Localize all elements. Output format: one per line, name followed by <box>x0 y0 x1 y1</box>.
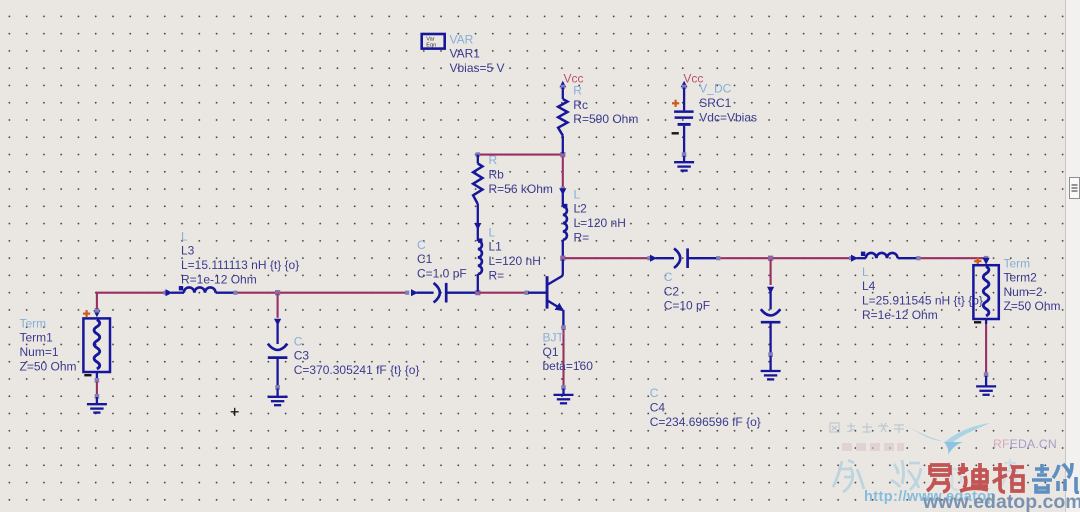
arrow into C2 pin1 <box>650 255 657 262</box>
node at L4 pin1 <box>849 256 853 260</box>
L2 lower lead to collector junction <box>562 240 564 258</box>
node at L4 pin2 <box>916 256 920 260</box>
node at C3 bottom <box>275 385 280 390</box>
watermark: RFEDA.CN <box>993 437 1057 451</box>
junction node collector <box>560 256 565 261</box>
junction node at C4 branch <box>768 256 773 261</box>
Term2 internal squiggle <box>983 266 989 316</box>
svg-text:R=56 kOhm: R=56 kOhm <box>489 182 553 196</box>
port Term2 symbol <box>973 265 998 319</box>
arrow into C4 top pin <box>767 287 774 294</box>
svg-text:L2: L2 <box>574 202 588 216</box>
watermark: faint small blocks row2 <box>842 443 904 451</box>
Term1 internal squiggle <box>94 320 100 369</box>
ground Term1 <box>87 404 107 412</box>
node at L3 pin2 <box>233 291 237 295</box>
C2 right lead <box>688 257 718 259</box>
wire collector to C2 <box>565 257 649 259</box>
wire L3 to C1 <box>238 292 408 294</box>
C1 right lead <box>446 292 477 294</box>
node at C4 bottom <box>768 352 773 357</box>
SRC1 minus mark <box>672 132 679 134</box>
svg-text:beta=160: beta=160 <box>543 359 594 373</box>
wire emitter to ground <box>562 329 564 386</box>
svg-text:Rc: Rc <box>573 98 588 112</box>
scrollbar thumb <box>1069 177 1080 199</box>
svg-text:C3: C3 <box>294 349 310 363</box>
inductor L4 symbol <box>857 257 867 259</box>
ground C4 <box>761 371 781 379</box>
Term1 plus mark <box>83 310 90 317</box>
ground Term2 <box>976 386 996 394</box>
Vcc power node (SRC1) <box>681 81 688 88</box>
wire C1 junction to BJT base node <box>480 292 527 294</box>
Term2 plus mark <box>974 258 981 265</box>
ground SRC1 <box>674 162 694 170</box>
svg-text:L=120 nH: L=120 nH <box>574 216 626 230</box>
svg-text:L3: L3 <box>181 244 195 258</box>
svg-text:VAR: VAR <box>450 32 474 46</box>
svg-text:C: C <box>417 238 426 252</box>
svg-text:L=15.111113 nH {t} {o}: L=15.111113 nH {t} {o} <box>181 258 299 272</box>
ground stem SRC1 <box>683 156 685 162</box>
svg-text:SRC1: SRC1 <box>699 96 731 110</box>
node at Term2 top <box>984 256 989 261</box>
node at L3 pin1 <box>163 291 167 295</box>
svg-text:L1: L1 <box>489 240 503 254</box>
watermark: http url <box>864 489 996 505</box>
L4 coils <box>866 253 898 258</box>
svg-text:R=: R= <box>489 268 505 282</box>
Term1 bottom pin stub <box>96 372 98 379</box>
wire C4 junction to L4 <box>773 257 851 259</box>
svg-text:Term: Term <box>1004 256 1031 270</box>
Term2 bottom stub <box>985 319 987 324</box>
svg-text:Term2: Term2 <box>1004 271 1038 285</box>
svg-text:R=: R= <box>574 230 590 244</box>
Vcc power node (Rc) <box>559 81 566 88</box>
Rb lower lead to L1 <box>477 204 479 232</box>
svg-text:Z=50 Ohm: Z=50 Ohm <box>1004 299 1061 313</box>
L3 pin square <box>179 286 183 290</box>
svg-text:BJT: BJT <box>543 331 565 345</box>
svg-text:Num=1: Num=1 <box>20 345 59 359</box>
svg-text:Vdc=Vbias: Vdc=Vbias <box>699 110 757 124</box>
ground stem Term2 <box>985 376 987 387</box>
svg-text:L: L <box>862 265 869 279</box>
ground stem Term1 <box>96 397 98 404</box>
ground stem BJT <box>562 389 564 395</box>
node square Vcc (SRC1) <box>682 85 686 89</box>
svg-text:Q1: Q1 <box>543 345 559 359</box>
L2 pin square <box>563 204 567 208</box>
svg-text:Term1: Term1 <box>20 331 54 345</box>
L1 pin square <box>478 238 482 242</box>
scrollbar grip <box>1069 177 1080 199</box>
svg-text:C=370.305241 fF {t} {o}: C=370.305241 fF {t} {o} <box>294 363 420 377</box>
inductor L2 symbol <box>562 194 564 207</box>
svg-text:R=590 Ohm: R=590 Ohm <box>573 112 638 126</box>
C2 plates <box>674 248 680 268</box>
capacitor C3 symbol <box>276 321 278 345</box>
node above Term1 ground <box>95 394 100 399</box>
capacitor C4 symbol (shunt) <box>769 289 771 310</box>
wire down to C3 <box>277 294 279 318</box>
svg-text:C: C <box>294 334 303 348</box>
arrow into C1 pin1 <box>411 289 418 296</box>
L4 pin square <box>861 252 865 256</box>
svg-text:C2: C2 <box>664 284 680 298</box>
ground BJT emitter <box>554 395 574 403</box>
wire Rc junction down to L2 <box>562 157 564 188</box>
svg-text:R=1e-12 Ohm: R=1e-12 Ohm <box>181 272 257 286</box>
node at Term1 top pin <box>95 308 100 313</box>
svg-text:C=1.0 pF: C=1.0 pF <box>417 267 467 281</box>
svg-text:V_DC: V_DC <box>699 82 731 96</box>
svg-text:C: C <box>664 270 673 284</box>
node at Rb top pin <box>476 152 481 157</box>
wire L4 to Term2 <box>921 257 987 259</box>
C3 lower lead <box>276 358 278 387</box>
ground stem C4 <box>769 356 771 371</box>
schematic origin cross <box>231 408 239 416</box>
svg-text:L: L <box>489 225 496 239</box>
wire C2 to C4 junction <box>720 257 770 259</box>
svg-text:C: C <box>650 386 659 400</box>
junction node at C3 branch <box>275 290 280 295</box>
Rc lower lead <box>562 136 564 154</box>
ground C3 <box>268 397 288 405</box>
scrollbar track <box>1066 0 1080 512</box>
watermark: faint uploader row <box>826 421 1080 453</box>
arrow into L4 pin1 <box>851 255 858 262</box>
Term1 top pin arrow <box>93 310 100 317</box>
transistor Q1 symbol <box>528 260 564 327</box>
C1 plates <box>434 283 440 303</box>
svg-text:L=120 nH: L=120 nH <box>489 254 541 268</box>
dc source SRC1 symbol <box>674 88 694 154</box>
inductor L1 symbol <box>477 232 479 242</box>
svg-text:R: R <box>573 84 582 98</box>
svg-text:L4: L4 <box>862 279 876 293</box>
L3 lead out <box>216 292 235 294</box>
svg-text:Term: Term <box>20 316 47 330</box>
svg-text:Z=50 Ohm: Z=50 Ohm <box>20 359 77 373</box>
node at BJT base pin <box>524 291 528 295</box>
wire Term2 bottom to ground <box>985 324 987 374</box>
capacitor C2 symbol <box>656 257 675 259</box>
resistor Rb symbol <box>477 155 479 164</box>
svg-text:C=10 pF: C=10 pF <box>664 299 710 313</box>
arrow into L3 pin1 <box>166 289 173 296</box>
inductor L3 symbol <box>171 292 184 294</box>
C4 lower lead <box>769 322 771 353</box>
SRC1 plus mark <box>672 100 679 107</box>
arrow into C3 top pin <box>274 319 281 326</box>
node at C2 pin2 <box>716 256 720 260</box>
svg-text:C4: C4 <box>650 401 666 415</box>
arrow into L1 top pin <box>474 223 481 230</box>
variable block VAR1 (VAR eqn) <box>422 34 445 49</box>
capacitor C1 symbol <box>417 292 434 294</box>
resistor Rc symbol <box>562 88 564 100</box>
watermark: big faint char wei <box>828 455 1080 512</box>
svg-text:L: L <box>574 187 581 201</box>
svg-text:C1: C1 <box>417 252 433 266</box>
node at SRC1 bottom <box>682 152 687 157</box>
svg-text:R=1e-12 Ohm: R=1e-12 Ohm <box>862 308 938 322</box>
arrow into Term2 top pin <box>983 258 990 265</box>
node at L2 top pin <box>561 187 565 191</box>
wire main line corner to L3 <box>96 292 97 294</box>
junction node main line / bias chain <box>475 290 480 295</box>
scrollbar divider <box>1065 0 1066 512</box>
watermark: swoosh logo <box>902 417 994 459</box>
L1 lower lead <box>477 274 479 292</box>
svg-text:Var: Var <box>426 36 434 42</box>
port Term1 symbol <box>83 318 110 372</box>
svg-text:L: L <box>181 229 188 243</box>
node at C2 pin1 <box>647 256 651 260</box>
wire Term1 bottom to ground <box>96 382 98 396</box>
ground stem C3 <box>276 389 278 397</box>
node above BJT ground <box>561 385 566 390</box>
wire Term1 top to main line <box>96 293 98 309</box>
watermark: brand characters yi di tuo pei xun <box>924 461 1080 494</box>
node above Term2 ground <box>984 372 989 377</box>
node square Vcc (Rc) <box>561 85 565 89</box>
svg-text:L=25.911545 nH {t} {o}: L=25.911545 nH {t} {o} <box>862 294 983 308</box>
L4 lead out <box>898 257 918 259</box>
svg-text:C=234.696596 fF {o}: C=234.696596 fF {o} <box>650 415 761 429</box>
arrow into L2 top pin <box>559 188 566 195</box>
L1 coils <box>478 241 482 274</box>
Rc zigzag <box>558 99 567 136</box>
watermark: www.edatop.com <box>923 491 1080 512</box>
node at emitter pin <box>561 325 566 330</box>
svg-text:Eqn: Eqn <box>426 43 436 49</box>
svg-text:Num=2: Num=2 <box>1004 285 1043 299</box>
node at Term1 bottom <box>95 378 100 383</box>
wire Rb top to Rc bottom junction <box>480 154 562 156</box>
Term1 minus mark <box>84 374 91 376</box>
svg-text:Rb: Rb <box>489 168 505 182</box>
Rb zigzag <box>473 164 482 205</box>
node at C1 pin1 <box>405 291 409 295</box>
junction node at Rc bottom <box>560 152 565 157</box>
C4 plates <box>761 309 781 315</box>
wire down to C4 <box>770 260 772 286</box>
Term2 minus mark <box>974 321 981 323</box>
L3 coils <box>184 287 216 292</box>
svg-text:VAR1: VAR1 <box>450 47 481 61</box>
L2 coils <box>563 207 567 240</box>
C3 plates <box>268 344 288 350</box>
svg-text:Vbias=5 V: Vbias=5 V <box>450 61 505 75</box>
